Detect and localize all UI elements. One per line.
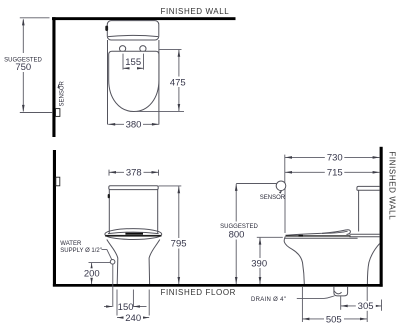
wall left vertical (top view) [52,17,55,137]
seat gap dark spot [299,235,304,237]
value 715 (masked) [325,167,345,177]
dimension 750 bottom tick [20,112,52,114]
seat center dark segment [125,233,143,235]
svg-text:750: 750 [15,62,31,73]
flush button (front view) [108,194,110,198]
dimension 800 top tick [236,183,277,185]
sensor box on left wall (front view) [56,177,60,186]
730/715 extension line above sensor [284,155,286,184]
dimension 240 arrows [117,316,124,319]
flush button (top view, left of tank) [105,26,108,31]
drain water curve [334,291,342,294]
wall top horizontal [52,17,236,20]
dimension 505 right tick [366,287,368,322]
dimension 240 line [117,317,149,319]
extension below floor: base left [116,290,118,316]
svg-text:800: 800 [229,229,245,240]
svg-text:WATER: WATER [60,241,82,247]
dimension 750 arrow down [22,105,25,112]
svg-text:155: 155 [125,57,141,68]
tank lid (front view) [109,186,158,190]
dimension 750 suggested: dim line [22,20,24,112]
value 380 (masked) [124,119,143,129]
value 200 (masked) [82,268,101,278]
seat gap dark line (side view) [286,235,351,237]
dimension 305 line [341,305,382,307]
svg-text:715: 715 [327,168,343,179]
svg-text:SENSOR: SENSOR [260,195,286,201]
dimension 378 right tick [158,170,160,176]
dimension 150 right arrow [134,306,147,308]
dimension 795 top tick [159,185,182,187]
hinge cap left [120,46,126,52]
sensor circle (side view) [276,181,286,191]
extension below floor: water supply [112,264,114,307]
hinge cap right [140,46,146,52]
svg-text:DRAIN Ø 4": DRAIN Ø 4" [251,297,286,303]
wall left vertical (front view) [53,150,56,287]
dimension 155 left bar [122,54,124,70]
finished floor [53,284,383,287]
svg-text:240: 240 [125,313,141,324]
pedestal left side [107,240,118,285]
svg-text:SENSOR: SENSOR [60,80,66,106]
tank body (front view) [109,190,157,234]
tank lid (side view) [357,186,380,190]
tank lid seam [108,35,158,36]
value 795 (masked) [169,238,189,249]
dimension 378 arrows [109,171,116,174]
value 505 (masked) [324,314,344,324]
dimension 200 line [91,263,93,284]
tank body (side view) [358,190,360,231]
wall right vertical [380,147,383,287]
sensor box on left wall [56,109,60,117]
sensor arrow up [58,85,60,89]
drain trap below floor [334,287,348,296]
ceramic rim line (side view) [285,237,358,239]
seat gap dark band [105,235,161,237]
dimension 155 arrows [124,67,129,69]
dimension 750 arrow up [22,18,25,25]
value 378 (masked) [124,167,144,177]
seat lid lower edge (side view) [322,231,348,233]
dimension 475 top tick [159,48,182,50]
dimension 715 line [285,171,380,173]
bowl front outline [284,236,304,284]
seat lid inner arc [108,232,159,234]
svg-text:475: 475 [170,77,186,88]
svg-text:380: 380 [126,120,142,131]
dimension 800 arrows [235,184,238,191]
dimension 730 line [285,156,380,158]
seat lid (top view) [109,51,159,111]
dimension 390 arrows [259,238,262,245]
dimension 475 arrows [178,50,181,57]
dimension 475 bottom tick [137,110,185,112]
svg-text:FINISHED WALL: FINISHED WALL [161,7,230,16]
dimension 305 arrows [341,305,348,308]
svg-text:SUPPLY Ø 1/2": SUPPLY Ø 1/2" [60,248,102,254]
dimension 505 line [302,318,367,320]
bowl back outline [367,243,379,284]
svg-text:730: 730 [327,153,343,164]
svg-text:378: 378 [126,168,142,179]
svg-text:305: 305 [358,301,374,312]
dimension 155 right bar [143,54,145,70]
body side left + 380 extension [107,40,109,125]
dimension 390 top tick [257,236,283,238]
value 305 (masked) [356,301,376,311]
dimension 390 line [259,238,261,284]
dimension 378 left tick [108,170,110,176]
dimension 305 right tick [381,300,383,311]
dimension 305 left tick [340,296,342,310]
dimension 795 line [178,186,180,284]
water supply leader [102,250,112,260]
svg-text:FINISHED FLOOR: FINISHED FLOOR [161,288,237,297]
value 730 (masked) [325,152,345,162]
dimension 200 arrows [90,263,93,270]
tank (top view) [107,21,159,40]
tank base rim lines [350,234,380,237]
dimension 800 line [235,184,237,284]
svg-text:FINISHED WALL: FINISHED WALL [387,151,396,220]
svg-text:390: 390 [251,258,267,269]
extension below floor: centerline drain [132,290,134,308]
label SUGGESTED (side) [221,222,257,240]
drain leader [297,296,335,299]
dimension 795 arrows [178,186,181,193]
dimension 505 arrows [302,318,309,321]
dimension 150 left arrow [104,306,112,308]
dimension 380 line [108,123,159,125]
dimension 750 top tick [20,17,50,19]
dimension 505 left tick [301,287,303,322]
dimension 475 line [178,50,180,111]
svg-text:505: 505 [326,314,342,325]
sensor arrow [280,191,282,193]
dimension 200 top tick [89,262,111,264]
value 475 (masked) [169,77,188,88]
dimension 378 line [109,171,159,173]
body side right + 380 extension [158,40,160,125]
svg-text:150: 150 [118,302,134,313]
value 390 (masked) [250,258,270,268]
seat (front view) [105,229,162,240]
value 240 (masked) [124,313,144,323]
seat top line (side view) [286,230,351,236]
pedestal right side [149,240,160,285]
water supply circle [110,260,115,265]
svg-text:200: 200 [84,268,100,279]
svg-text:795: 795 [171,239,187,250]
extension below floor: base right [148,290,150,316]
dimension 380 arrows [108,123,115,126]
730/715 extension line below sensor to seat [284,188,286,233]
